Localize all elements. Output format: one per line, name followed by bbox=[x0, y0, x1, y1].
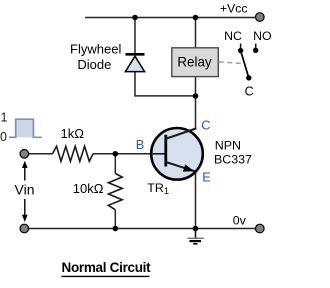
transistor TR1 base bar bbox=[164, 135, 167, 167]
transistor TR1 body bbox=[151, 128, 203, 180]
transistor TR1 emitter arrow bbox=[183, 164, 194, 171]
transistor TR1 emitter lead bbox=[166, 162, 196, 172]
wire: diode branch down from rail bbox=[134, 18, 136, 54]
switch NC contact dot bbox=[238, 48, 243, 53]
switch NO contact stub bbox=[255, 44, 257, 49]
svg-text:Flywheel: Flywheel bbox=[70, 42, 121, 57]
input pulse outline bbox=[9, 119, 42, 137]
svg-text:1: 1 bbox=[1, 111, 8, 125]
ground bar 3 bbox=[193, 243, 197, 245]
terminal +Vcc bbox=[255, 13, 264, 22]
svg-text:0v: 0v bbox=[233, 214, 247, 228]
dashed link relay to switch lever bbox=[219, 62, 244, 64]
svg-text:Diode: Diode bbox=[77, 57, 111, 72]
ground stub bbox=[195, 229, 197, 239]
svg-text:B: B bbox=[136, 137, 145, 152]
junction node B: R1/R2/base bbox=[113, 151, 119, 157]
junction node: diode on top rail bbox=[132, 15, 138, 21]
terminal Vin bottom bbox=[20, 224, 29, 233]
wire: R1 to transistor base bbox=[93, 153, 151, 155]
svg-text:C: C bbox=[245, 84, 254, 98]
switch NC contact stub bbox=[240, 44, 242, 49]
wire: R2 bottom to 0v rail bbox=[114, 210, 116, 229]
svg-text:E: E bbox=[202, 170, 211, 185]
terminal 0v bbox=[255, 224, 264, 233]
title underline bbox=[62, 275, 150, 277]
transistor TR1 base lead inside body bbox=[151, 153, 166, 155]
input pulse fill bbox=[16, 119, 34, 137]
wire: diode anode to collector node bbox=[135, 72, 196, 96]
wire: node A down to transistor collector bbox=[195, 96, 197, 129]
resistor R2 10k zigzag bbox=[108, 174, 122, 210]
resistor R1 1k zigzag bbox=[53, 146, 94, 161]
ground bar 1 bbox=[188, 237, 204, 239]
svg-text:NC: NC bbox=[224, 29, 242, 43]
Vin arrow down shaft bbox=[24, 199, 26, 217]
relay RL1 box bbox=[172, 48, 219, 77]
wire: transistor emitter down to 0v rail bbox=[195, 170, 197, 229]
wire: +Vcc top rail bbox=[85, 17, 256, 19]
wire: node B down to resistor R2 bbox=[114, 154, 116, 174]
wire: 0v bottom rail bbox=[24, 228, 255, 230]
svg-text:NO: NO bbox=[253, 29, 271, 43]
transistor TR1 collector lead bbox=[166, 128, 197, 138]
svg-text:+Vcc: +Vcc bbox=[220, 2, 247, 16]
svg-text:10kΩ: 10kΩ bbox=[73, 181, 104, 196]
switch common contact dot C bbox=[246, 75, 251, 80]
flywheel diode D1 cathode bar bbox=[126, 53, 145, 56]
svg-text:Relay: Relay bbox=[177, 54, 212, 69]
junction node: emitter on 0v rail bbox=[193, 226, 199, 232]
svg-text:C: C bbox=[201, 117, 210, 132]
svg-text:NPN: NPN bbox=[215, 138, 241, 152]
junction node: R2 bottom on 0v rail bbox=[113, 226, 119, 232]
ground bar 2 bbox=[190, 240, 202, 242]
junction node: relay on top rail bbox=[193, 15, 199, 21]
terminal Vin top bbox=[20, 150, 29, 159]
svg-text:BC337: BC337 bbox=[214, 153, 252, 167]
junction node A: diode/relay/collector bbox=[193, 93, 199, 99]
svg-text:Vin: Vin bbox=[15, 181, 35, 197]
svg-text:0: 0 bbox=[0, 130, 7, 144]
switch NO contact dot bbox=[253, 48, 258, 53]
svg-text:TR1: TR1 bbox=[147, 181, 169, 196]
svg-text:Normal Circuit: Normal Circuit bbox=[62, 260, 152, 275]
switch lever NC to C bbox=[241, 51, 249, 78]
wire: relay bottom to node A bbox=[195, 77, 197, 96]
Vin arrow head up bbox=[22, 161, 28, 168]
wire: input terminal to resistor R1 bbox=[24, 153, 52, 155]
wire: relay branch down from rail bbox=[195, 18, 197, 48]
Vin arrow up shaft bbox=[24, 166, 26, 181]
Vin arrow head down bbox=[22, 215, 28, 222]
svg-text:1kΩ: 1kΩ bbox=[61, 126, 85, 141]
flywheel diode D1 triangle bbox=[125, 56, 144, 71]
